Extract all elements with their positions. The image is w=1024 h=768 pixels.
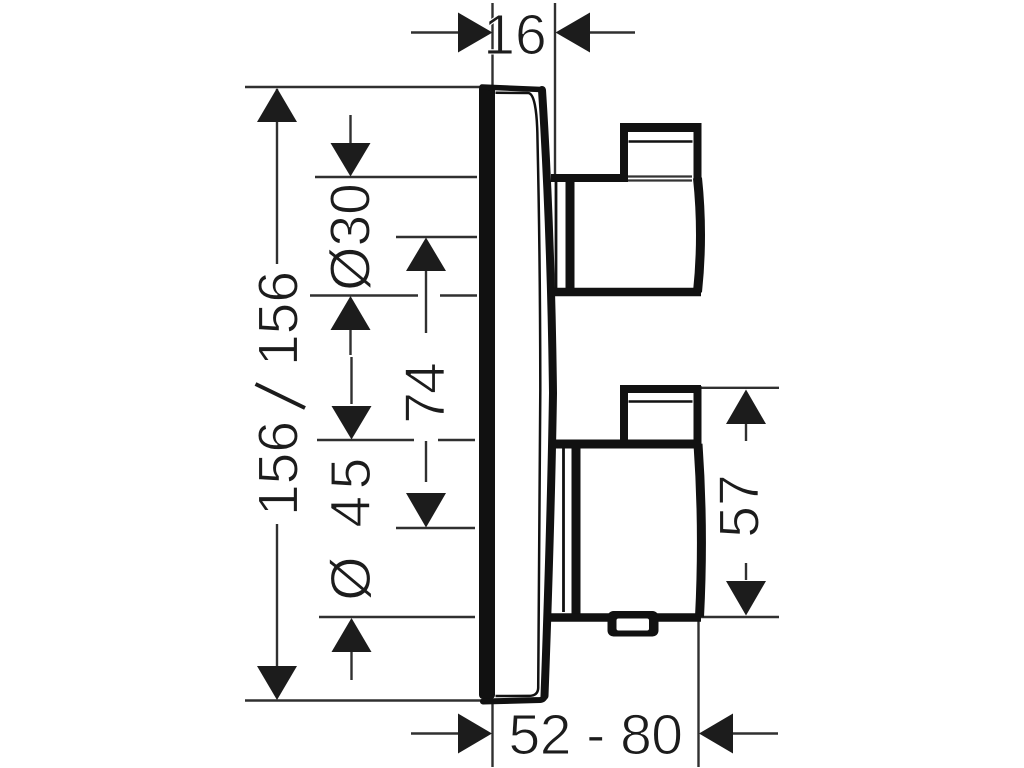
- plate inner line: [496, 93, 541, 696]
- arrow 74 top: [406, 238, 446, 272]
- lower tab top edge: [620, 385, 701, 393]
- ext line y177: [315, 176, 477, 178]
- upper tab inner line: [629, 140, 693, 143]
- upper knob body left: [566, 174, 575, 296]
- plate left band: [479, 85, 495, 699]
- arrow 156 top: [257, 88, 297, 122]
- vert ext x555: [554, 3, 556, 176]
- upper knob bottom edge: [552, 288, 701, 297]
- lower knob bottom edge: [550, 613, 701, 622]
- upper tab top edge: [620, 123, 702, 132]
- dim 156 line: [276, 89, 278, 264]
- arrow 16 right: [556, 13, 591, 53]
- upper tab bottom thin lines: [628, 175, 692, 177]
- ext line y700: [245, 699, 486, 701]
- arrow 52-80 right: [699, 714, 733, 754]
- ext line y295: [310, 294, 418, 296]
- ext line y528: [396, 527, 475, 529]
- dim 16 tails: [411, 31, 458, 33]
- svg-text:74: 74: [394, 363, 458, 424]
- upper tab left edge: [620, 123, 628, 178]
- ext line y617 right: [658, 616, 779, 618]
- lower knob top edge: [551, 440, 694, 449]
- vert ext x492 bottom: [491, 702, 493, 767]
- svg-text:156: 156: [247, 421, 311, 516]
- dim 52-80 tails: [411, 732, 458, 734]
- svg-text:Ø 45: Ø 45: [319, 451, 383, 601]
- lower tab right edge: [694, 386, 702, 446]
- ext line y87: [245, 86, 486, 88]
- upper knob right edge: [698, 178, 701, 292]
- arrow O30 bottom: [331, 296, 371, 330]
- arrow 57 top: [726, 390, 766, 425]
- svg-text:57: 57: [708, 474, 772, 537]
- arrow 52-80 left: [458, 714, 492, 754]
- dim O30 tails: [349, 115, 351, 144]
- lower tab inner line: [629, 400, 693, 403]
- ext line y388 right: [700, 387, 779, 389]
- dim O45 tails: [350, 357, 352, 404]
- dim 57 line: [745, 424, 747, 441]
- vert ext x698: [697, 615, 699, 767]
- arrow O45 top: [332, 406, 372, 440]
- ext line y237: [396, 236, 477, 238]
- lower knob nub: [608, 611, 659, 637]
- arrow O30 top: [331, 143, 371, 177]
- upper knob sleeve line: [555, 182, 558, 289]
- lower knob body left: [572, 441, 581, 621]
- vert ext x492 top: [491, 3, 493, 86]
- dim 74 tails: [425, 271, 427, 333]
- svg-text:16: 16: [483, 3, 546, 67]
- ext line y617 left: [319, 616, 475, 618]
- upper tab right edge: [694, 124, 702, 180]
- arrow O45 bottom: [332, 618, 372, 652]
- svg-text:156: 156: [247, 271, 311, 366]
- arrow 156 bottom: [257, 666, 297, 700]
- ext line y440: [317, 439, 414, 441]
- svg-text:52 - 80: 52 - 80: [509, 703, 683, 767]
- arrow 16 left: [458, 13, 493, 53]
- arrow 74 bottom: [406, 493, 446, 528]
- lower knob right edge: [698, 444, 701, 617]
- arrow 57 bottom: [726, 581, 766, 616]
- upper knob top edge: [551, 174, 628, 182]
- plate bottom edge: [483, 695, 545, 702]
- lower tab left edge: [620, 385, 628, 444]
- lower knob sleeve line: [562, 448, 565, 612]
- plate right edge: [542, 90, 553, 696]
- plate top edge: [482, 87, 541, 90]
- label 156/156 slash: [256, 384, 306, 408]
- svg-text:Ø30: Ø30: [319, 183, 383, 291]
